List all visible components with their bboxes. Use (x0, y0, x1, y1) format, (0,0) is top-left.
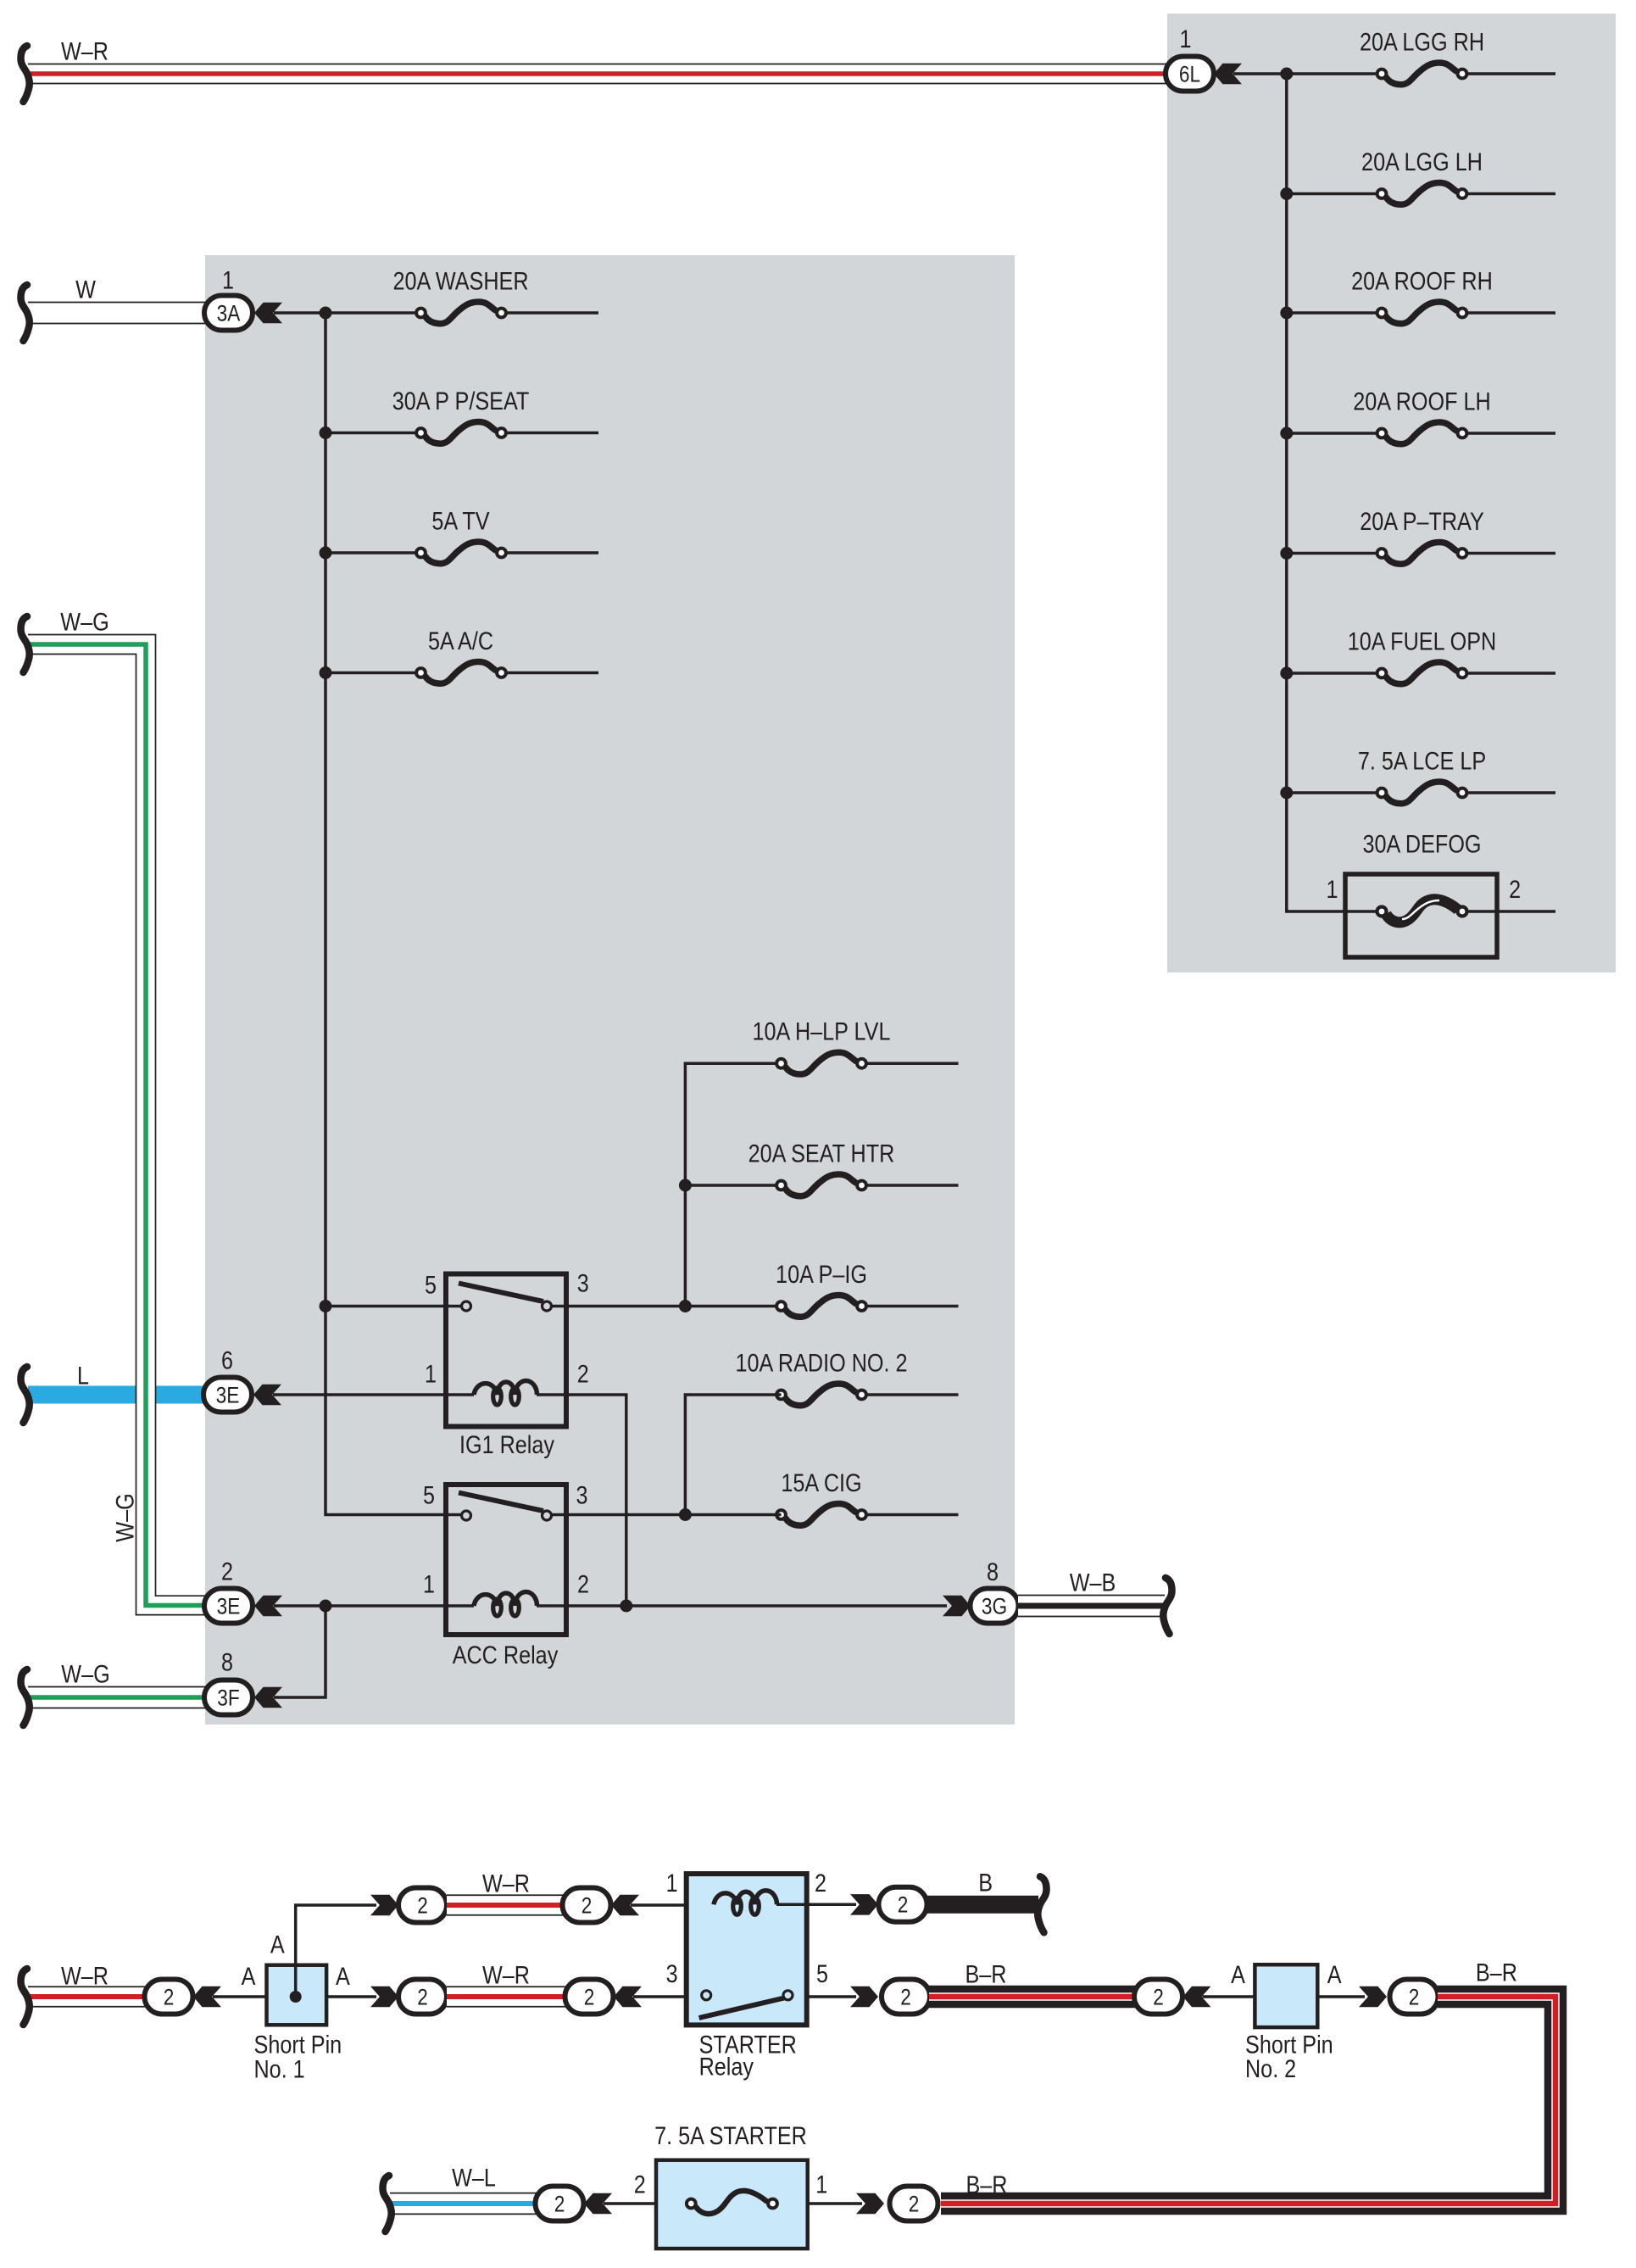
wire: connector to STARTER relay pin 1 (631, 1903, 714, 1907)
svg-text:1: 1 (815, 2171, 827, 2199)
svg-text:B–R: B–R (965, 1960, 1007, 1988)
svg-text:8: 8 (987, 1558, 999, 1586)
arrow into connector 2 (W-L) (584, 2193, 612, 2214)
svg-text:No. 2: No. 2 (1245, 2055, 1296, 2083)
svg-text:2: 2 (584, 1984, 595, 2009)
connector 3F pin 8 (204, 1648, 253, 1714)
svg-text:1: 1 (1327, 876, 1338, 904)
wire: connector to STARTER relay pin 3 (633, 1995, 701, 1998)
fuse 20A ROOF LH (1280, 387, 1555, 443)
fuse 20A ROOF RH (1280, 267, 1555, 323)
wire: STARTER relay pin 5 out (807, 1995, 856, 1998)
svg-text:10A RADIO NO. 2: 10A RADIO NO. 2 (735, 1349, 907, 1377)
svg-text:3A: 3A (217, 300, 241, 326)
junction: CIG row to radio branch (679, 1508, 692, 1521)
junction: feed tee on right bus (1280, 68, 1293, 81)
svg-text:Relay: Relay (699, 2053, 754, 2081)
connector 2 (B-R mid left) (1134, 1980, 1182, 2014)
fuse 20A LGG RH (1360, 28, 1555, 84)
wire: IG1 coil pin 2 down to ACC output row (537, 1395, 626, 1606)
svg-text:1: 1 (423, 1570, 435, 1598)
svg-text:2: 2 (1409, 1984, 1420, 2009)
junction: branch to 20A SEAT HTR (679, 1179, 692, 1192)
connector 3E pin 2 (204, 1558, 253, 1623)
wire: 3E-6 to IG1 coil pin 1 (273, 1393, 474, 1396)
fuse 7. 5A LCE LP (1280, 747, 1555, 803)
svg-text:1: 1 (1180, 25, 1192, 53)
svg-text:20A ROOF RH: 20A ROOF RH (1351, 267, 1493, 295)
arrow into 3F (254, 1687, 282, 1708)
svg-text:5A TV: 5A TV (431, 507, 489, 535)
junction block panel (right fuse box) (1167, 14, 1616, 972)
fuse 20A SEAT HTR (748, 1140, 959, 1195)
wire: 6L to right fuse bus (1233, 72, 1377, 75)
svg-text:1: 1 (222, 266, 234, 294)
wire W-L (from ignition switch ST1) (383, 2164, 539, 2232)
connector 2 (W-R left) (145, 1980, 193, 2014)
svg-text:3G: 3G (982, 1593, 1007, 1619)
wire: bus to IG1 pin 5 (326, 1305, 461, 1308)
wire W-R (battery feed, top) (21, 37, 1170, 102)
fuse 15A CIG (775, 1469, 958, 1525)
connector 3A pin 1 (204, 266, 253, 330)
svg-text:W–G: W–G (111, 1493, 139, 1541)
arrow into connector 2 (B-R bottom) (856, 2193, 884, 2214)
svg-text:6L: 6L (1179, 61, 1200, 86)
junction: 3E-2 / 3F tie (320, 1600, 332, 1613)
svg-text:2: 2 (1509, 876, 1521, 904)
fuse 20A P–TRAY (1280, 508, 1555, 564)
arrow into connector 2 (upper left) (370, 1895, 398, 1915)
arrow into connector 2 (B-R right) (1359, 1987, 1387, 2007)
svg-text:10A H–LP LVL: 10A H–LP LVL (753, 1018, 891, 1046)
svg-text:2: 2 (634, 2171, 646, 2199)
svg-text:No. 1: No. 1 (254, 2055, 305, 2083)
svg-text:5A A/C: 5A A/C (428, 627, 493, 655)
wire W-G (from ignition switch ACC, top-left) (21, 608, 209, 1614)
svg-text:5: 5 (423, 1481, 435, 1509)
wire L (ignition switch IG1) (21, 1362, 208, 1423)
fuse 10A RADIO NO. 2 (735, 1349, 958, 1405)
connector 2 (W-L) (536, 2187, 584, 2221)
wire B-R (starter relay to short pin 2) (929, 1960, 1138, 1997)
svg-text:20A LGG RH: 20A LGG RH (1360, 28, 1484, 56)
wire W-R (short pin to starter relay switch) (447, 1961, 566, 2006)
svg-text:2: 2 (554, 2191, 565, 2216)
svg-text:W–B: W–B (1070, 1569, 1116, 1597)
fuse 30A P P/SEAT (320, 387, 599, 443)
wire: 3E-2 to ACC coil pin 1 (274, 1604, 474, 1608)
svg-text:20A P–TRAY: 20A P–TRAY (1360, 508, 1484, 536)
bus wire (left box vertical, battery feed) (326, 313, 461, 1515)
svg-text:1: 1 (425, 1360, 437, 1388)
svg-text:7. 5A LCE LP: 7. 5A LCE LP (1358, 747, 1486, 775)
connector 2 (B-R bottom) (890, 2187, 938, 2221)
svg-text:3E: 3E (217, 1593, 241, 1619)
junction: P-IG row to seat-htr branch (679, 1300, 692, 1312)
connector 3G pin 8 (971, 1558, 1019, 1624)
svg-text:2: 2 (164, 1984, 175, 2009)
svg-text:W–R: W–R (61, 1962, 109, 1990)
wire: connector to Short Pin No. 1 (213, 1995, 296, 1998)
arrow into 3E pin 2 (254, 1596, 282, 1616)
wire: connector to 7.5A STARTER fuse (604, 2202, 691, 2205)
relay IG1 (425, 1269, 589, 1459)
svg-text:2: 2 (1153, 1984, 1164, 2009)
svg-text:10A FUEL OPN: 10A FUEL OPN (1348, 627, 1497, 655)
fusible link 30A DEFOG (1327, 830, 1556, 957)
arrow into 3G (943, 1596, 971, 1616)
svg-text:2: 2 (417, 1892, 428, 1918)
fuse 10A H–LP LVL (753, 1018, 959, 1074)
svg-text:2: 2 (577, 1360, 589, 1388)
wire: ACC pin 3 to 15A CIG (552, 1513, 782, 1517)
svg-text:W–R: W–R (482, 1870, 530, 1897)
wire: ACC coil pin 2 to 3G (537, 1604, 947, 1608)
svg-text:1: 1 (666, 1870, 678, 1897)
junction: IG1 feed joins ACC output (620, 1600, 632, 1613)
wire: Short Pin No.1 branch up to starter relay coil row (296, 1905, 376, 1997)
svg-text:3: 3 (577, 1269, 589, 1297)
Short Pin No. 2 (1231, 1961, 1342, 2083)
wire W-B (to back-up lamp relay) (1018, 1569, 1172, 1634)
svg-text:2: 2 (417, 1984, 428, 2009)
svg-text:IG1 Relay: IG1 Relay (459, 1431, 554, 1459)
fuse 20A WASHER (320, 267, 599, 323)
svg-text:A: A (336, 1963, 350, 1991)
svg-text:5: 5 (816, 1960, 828, 1988)
fuse 10A P–IG (775, 1261, 958, 1317)
connector 6L pin 1 (1166, 25, 1214, 92)
wire: branch up to 10A RADIO NO. 2 (685, 1395, 781, 1515)
fuse 20A LGG LH (1280, 148, 1555, 204)
svg-text:W–R: W–R (482, 1961, 530, 1989)
wire: fuse to connector 2 (B-R bottom) (808, 2202, 862, 2205)
svg-text:8: 8 (221, 1648, 233, 1676)
arrow into 6L (1214, 64, 1242, 84)
svg-text:2: 2 (221, 1558, 233, 1585)
junction: bus to IG1 pin 5 (320, 1300, 332, 1312)
wire B-R (loop to 7.5A STARTER fuse) (941, 1959, 1555, 2204)
wire: 3F to 3E-2 tie (274, 1606, 326, 1697)
svg-text:6: 6 (221, 1346, 233, 1374)
junction block panel (left fuse/relay box) (205, 255, 1015, 1725)
fuse 10A FUEL OPN (1280, 627, 1555, 683)
wire W-R (short pin to starter relay coil) (447, 1870, 566, 1914)
connector 2 (switch row left) (565, 1980, 614, 2014)
arrow out of connector 2 (B-R mid) (1183, 1987, 1211, 2007)
svg-text:2: 2 (898, 1892, 909, 1918)
arrow into 3E pin 6 (253, 1385, 281, 1405)
svg-text:W–R: W–R (61, 37, 109, 65)
svg-text:2: 2 (815, 1870, 826, 1897)
svg-text:2: 2 (582, 1892, 593, 1918)
wire: STARTER relay pin 2 out (776, 1903, 856, 1907)
wire: 3A to left fuse bus (274, 311, 421, 315)
svg-text:B–R: B–R (966, 2171, 1008, 2199)
fuse 5A TV (320, 507, 599, 563)
wire W-G (from ignition switch ACC, lower) (21, 1660, 209, 1725)
arrow into connector 2 (B out) (850, 1894, 878, 1915)
svg-text:B: B (978, 1869, 993, 1897)
svg-text:ACC Relay: ACC Relay (453, 1641, 559, 1669)
svg-text:W: W (75, 276, 96, 304)
svg-text:20A WASHER: 20A WASHER (392, 267, 528, 295)
bus wire (right fuse box vertical) (1287, 74, 1377, 911)
svg-text:2: 2 (577, 1570, 589, 1598)
wire W (to connector 3A) (21, 276, 209, 341)
svg-text:B–R: B–R (1476, 1959, 1517, 1987)
arrow into connector 2 (B-R out) (850, 1987, 878, 2007)
arrow into connector 2 (switch row left) (614, 1987, 642, 2007)
wire: IG1 pin 3 to 10A P-IG (552, 1305, 782, 1308)
svg-text:A: A (242, 1963, 256, 1991)
svg-text:2: 2 (900, 1984, 911, 2009)
Short Pin No. 1 (242, 1931, 350, 2084)
svg-text:W–G: W–G (61, 1660, 109, 1688)
wire: branch to 20A SEAT HTR (685, 1184, 781, 1187)
svg-text:3: 3 (666, 1960, 678, 1988)
svg-text:W–L: W–L (452, 2164, 496, 2192)
arrow into connector 2 (coil feed) (611, 1895, 639, 1915)
svg-text:15A CIG: 15A CIG (781, 1469, 861, 1497)
svg-text:3F: 3F (217, 1685, 240, 1710)
arrow into connector 2 (W-R left) (193, 1987, 221, 2007)
svg-text:2: 2 (909, 2191, 920, 2216)
connector 2 (coil feed) (563, 1888, 611, 1923)
wire: Short Pin No.1 to connector (326, 1995, 376, 1998)
fuse 7. 5A STARTER (634, 2122, 828, 2248)
svg-text:A: A (270, 1931, 285, 1959)
wire: Short Pin No.2 out (1317, 1995, 1365, 1998)
connector 3E pin 6 (203, 1346, 252, 1412)
wire B (to starter) (927, 1869, 1047, 1932)
svg-text:30A DEFOG: 30A DEFOG (1362, 830, 1481, 858)
connector 2 (B-R out) (882, 1980, 930, 2014)
svg-text:30A P P/SEAT: 30A P P/SEAT (392, 387, 530, 415)
wire W-R (ignition switch ST2) (21, 1962, 147, 2025)
svg-text:3: 3 (576, 1481, 588, 1509)
svg-text:L: L (77, 1362, 89, 1390)
arrow into 3A (254, 303, 282, 323)
svg-text:10A P–IG: 10A P–IG (776, 1261, 867, 1289)
svg-text:7. 5A STARTER: 7. 5A STARTER (654, 2122, 807, 2150)
connector 2 (upper left) (398, 1888, 447, 1923)
wire: to Short Pin No. 2 (1203, 1995, 1318, 1998)
fuse 5A A/C (320, 627, 599, 683)
wire: branch up to 10A H-LP LVL (685, 1063, 781, 1306)
svg-text:A: A (1327, 1961, 1342, 1989)
arrow into connector 2 (main row) (370, 1987, 398, 2007)
relay STARTER (666, 1870, 828, 2081)
relay ACC (423, 1481, 589, 1669)
svg-text:3E: 3E (216, 1382, 240, 1407)
svg-text:A: A (1231, 1961, 1245, 1989)
svg-text:20A LGG LH: 20A LGG LH (1361, 148, 1483, 176)
connector 2 (B out) (879, 1887, 927, 1922)
svg-text:5: 5 (425, 1271, 437, 1299)
connector 2 (main row) (398, 1980, 447, 2014)
svg-text:20A SEAT HTR: 20A SEAT HTR (748, 1140, 895, 1167)
connector 2 (B-R right) (1390, 1980, 1438, 2014)
svg-text:20A ROOF LH: 20A ROOF LH (1353, 387, 1491, 415)
svg-text:W–G: W–G (60, 608, 109, 636)
